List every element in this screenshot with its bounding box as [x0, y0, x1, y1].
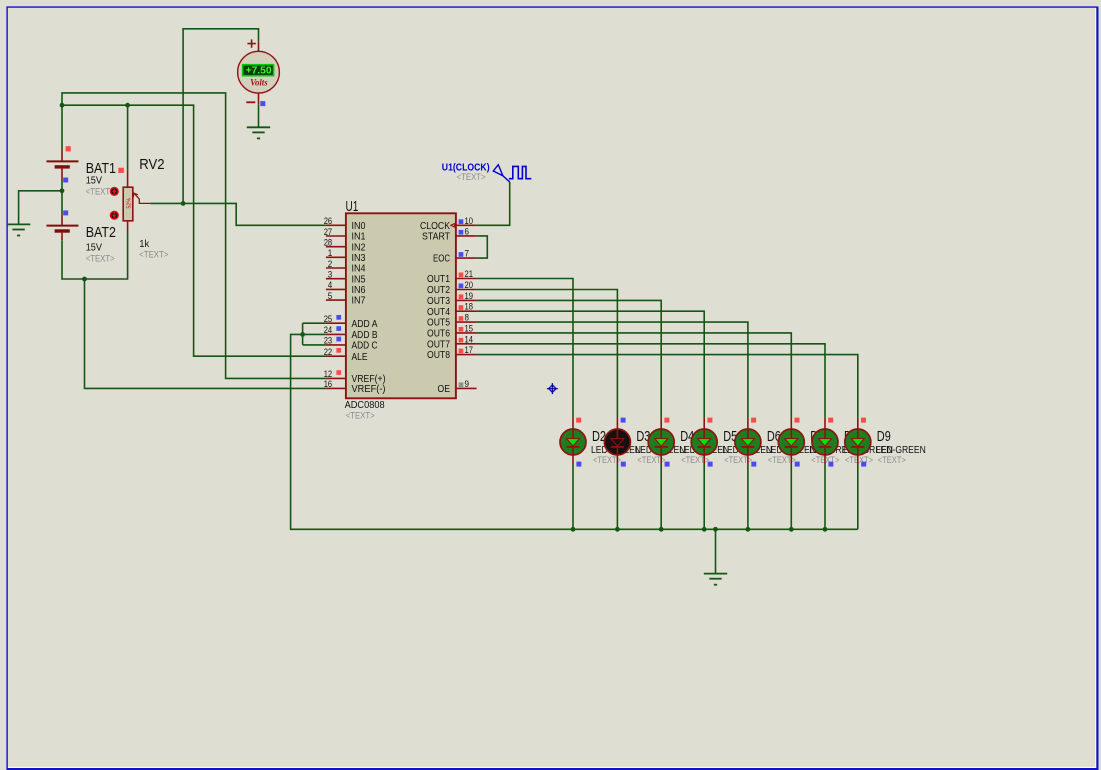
LED D2 — [560, 418, 586, 465]
U1 pin 28 IN2 — [324, 238, 366, 254]
svg-text:IN6: IN6 — [352, 285, 366, 296]
LED D9 selection squares — [861, 418, 866, 423]
RV2 increment button — [110, 187, 119, 196]
svg-text:OUT2: OUT2 — [427, 285, 450, 296]
svg-text:28: 28 — [324, 238, 333, 249]
svg-text:EOC: EOC — [433, 254, 450, 265]
svg-text:6: 6 — [465, 226, 470, 237]
wire LED D6 cathode to ground bus — [747, 465, 749, 530]
svg-text:ADD C: ADD C — [352, 341, 378, 352]
battery BAT2 — [47, 215, 79, 240]
U1 pin 15 OUT6 — [427, 323, 477, 339]
svg-text:20: 20 — [465, 280, 474, 291]
wire U1 OUT1 to LED D2 — [477, 279, 573, 418]
wire U1 OUT8 to LED D9 — [477, 355, 858, 418]
LED D3 selection squares — [621, 418, 626, 423]
svg-text:OUT3: OUT3 — [427, 296, 450, 307]
op-amp/ADC chip U1 ADC0808 body — [346, 213, 456, 398]
RV2 wiper arrow — [135, 194, 151, 204]
svg-text:RV2: RV2 — [139, 157, 164, 173]
U1 pin 17 OUT8 — [427, 345, 477, 361]
BAT1 selection squares — [66, 146, 71, 151]
svg-text:IN5: IN5 — [352, 274, 366, 285]
wire voltmeter- to ground — [258, 104, 260, 127]
voltmeter - pin — [258, 93, 260, 104]
origin marker (blue crosshair) — [547, 383, 558, 394]
LED D9 labels — [876, 429, 926, 466]
svg-text:OUT5: OUT5 — [427, 318, 450, 329]
U1 pin 3 IN5 — [326, 270, 366, 286]
voltmeter body — [238, 51, 280, 93]
junction bus at D4 — [659, 527, 664, 532]
voltmeter + sign — [247, 39, 255, 47]
svg-text:8: 8 — [465, 313, 470, 324]
svg-text:<TEXT>: <TEXT> — [845, 455, 873, 466]
LED D4 labels — [679, 429, 729, 466]
svg-text:<TEXT>: <TEXT> — [346, 410, 375, 421]
svg-text:+7.50: +7.50 — [246, 66, 273, 77]
svg-text:OUT1: OUT1 — [427, 274, 450, 285]
U1 pin 6 START — [422, 226, 477, 242]
U1 pin 4 IN6 — [326, 280, 366, 296]
LED D3 (off) — [604, 418, 630, 465]
wire RV2 top pin rail — [127, 105, 129, 170]
LED D9 — [845, 418, 871, 465]
wire BAT2- bottom rail to RV2 bottom — [62, 232, 128, 280]
svg-text:18: 18 — [465, 302, 474, 313]
svg-text:ADD A: ADD A — [352, 319, 378, 330]
svg-text:OUT7: OUT7 — [427, 339, 450, 350]
wire BAT1+/RV2 top rail to U1 ALE — [62, 105, 326, 356]
BAT2 selection square — [63, 210, 68, 215]
LED D8 selection squares — [828, 418, 833, 423]
U1 pin 16 VREF(-) — [324, 379, 386, 395]
svg-text:IN2: IN2 — [352, 242, 366, 253]
LED D5 selection squares — [707, 418, 712, 423]
svg-text:IN4: IN4 — [352, 264, 366, 275]
svg-text:5: 5 — [328, 291, 333, 302]
wire BAT1- to BAT2+ — [61, 191, 63, 215]
svg-text:1: 1 — [328, 248, 333, 259]
LED D2 labels — [591, 429, 641, 466]
U1 pin 25 ADD A — [324, 314, 378, 330]
wire voltmeter+ to RV2 wiper node (top loop) — [183, 29, 258, 204]
svg-text:<TEXT>: <TEXT> — [878, 455, 906, 466]
LED D3 labels — [635, 429, 685, 466]
svg-text:IN3: IN3 — [352, 253, 366, 264]
svg-text:START: START — [422, 232, 450, 243]
voltmeter - sign — [246, 101, 255, 103]
junction wiper node — [181, 201, 186, 206]
wire U1 OUT3 to LED D4 — [477, 300, 662, 417]
junction bus at D3 — [615, 527, 620, 532]
LED D7 — [778, 418, 804, 465]
wire ADD A tie — [303, 322, 326, 324]
voltmeter display — [243, 65, 274, 76]
svg-text:19: 19 — [465, 291, 474, 302]
LED D5 — [691, 418, 717, 465]
junction bus at D8 — [823, 527, 828, 532]
svg-text:CLOCK: CLOCK — [420, 221, 450, 232]
svg-text:BAT2: BAT2 — [86, 225, 116, 241]
wire U1 OUT4 to LED D5 — [477, 311, 705, 417]
LED D6 — [735, 418, 761, 465]
RV2 top pin — [127, 170, 129, 187]
U1 pin 12 VREF(+) — [324, 369, 386, 385]
voltmeter + pin — [258, 41, 260, 51]
voltmeter selection square — [260, 101, 265, 106]
junction bus at D5 — [702, 527, 707, 532]
wire RV2 wiper to U1 IN0 — [150, 203, 326, 225]
svg-text:<TEXT>: <TEXT> — [86, 253, 115, 264]
potentiometer RV2 body — [123, 187, 133, 221]
svg-text:OUT8: OUT8 — [427, 350, 450, 361]
wire U1 OUT6 to LED D7 — [477, 333, 792, 418]
wire BAT1+ up and over to U1 VREF(+) — [62, 93, 326, 379]
junction bus at D6 — [746, 527, 751, 532]
svg-text:BAT1: BAT1 — [86, 161, 116, 177]
svg-text:OUT6: OUT6 — [427, 329, 450, 340]
svg-text:23: 23 — [324, 336, 333, 347]
wire battery bottom rail to U1 VREF(-) — [85, 279, 326, 388]
U1 pin 27 IN1 — [324, 227, 366, 243]
LED D5 labels — [722, 429, 772, 466]
wire LED D3 cathode to ground bus — [616, 465, 618, 530]
svg-text:LED-GREEN: LED-GREEN — [876, 445, 926, 456]
svg-text:7: 7 — [465, 249, 470, 260]
svg-text:OE: OE — [438, 384, 451, 395]
junction bus at D2 — [571, 527, 576, 532]
wire ADD B to ground bus — [291, 334, 858, 529]
svg-text:2: 2 — [328, 259, 333, 270]
ground (voltmeter) — [247, 126, 270, 128]
LED D4 selection squares — [664, 418, 669, 423]
wire ground bus stem — [715, 529, 717, 573]
svg-text:IN7: IN7 — [352, 296, 366, 307]
svg-text:14: 14 — [465, 334, 474, 345]
junction battery midpoint — [60, 188, 65, 193]
svg-text:9: 9 — [465, 379, 470, 390]
svg-text:4: 4 — [328, 280, 333, 291]
svg-text:26: 26 — [324, 216, 333, 227]
U1 pin 22 ALE — [324, 347, 368, 363]
wire U1 OUT2 to LED D3 — [477, 290, 618, 418]
RV2 decrement button — [110, 211, 119, 220]
sheet inner margin line (cream bottom) — [8, 766, 1096, 768]
U1 pin 10 CLOCK — [420, 216, 477, 232]
svg-text:VREF(-): VREF(-) — [352, 384, 386, 395]
clock generator U1(CLOCK) flag — [493, 165, 503, 176]
svg-text:10: 10 — [465, 216, 474, 227]
svg-text:15V: 15V — [86, 176, 103, 187]
wire ADD A to ADD C vertical tie — [302, 323, 304, 345]
junction BAT1+ rail — [60, 103, 65, 108]
svg-text:D9: D9 — [877, 429, 891, 445]
svg-text:<TEXT>: <TEXT> — [457, 172, 486, 183]
LED D2 selection squares — [576, 418, 581, 423]
RV2 bottom pin — [127, 221, 129, 232]
svg-text:OUT4: OUT4 — [427, 307, 450, 318]
U1 pin 14 OUT7 — [427, 334, 477, 350]
U1 pin 20 OUT2 — [427, 280, 477, 296]
LED D7 selection squares — [795, 418, 800, 423]
svg-text:1k: 1k — [139, 239, 150, 250]
svg-text:25: 25 — [324, 314, 333, 325]
svg-text:Volts: Volts — [250, 78, 268, 88]
ground (LED bus) — [704, 573, 727, 575]
U1 pin 23 ADD C — [324, 336, 378, 352]
svg-text:16: 16 — [324, 379, 333, 390]
wire LED D4 cathode to ground bus — [660, 465, 662, 530]
wire LED D8 cathode to ground bus — [824, 465, 826, 530]
svg-text:15: 15 — [465, 323, 474, 334]
LED D8 labels — [843, 429, 893, 466]
junction bus at D7 — [789, 527, 794, 532]
svg-text:17: 17 — [465, 345, 474, 356]
wire U1 OUT5 to LED D6 — [477, 322, 748, 418]
svg-text:24: 24 — [324, 325, 333, 336]
U1 pin 19 OUT3 — [427, 291, 477, 307]
wire U1 START to EOC loop — [477, 236, 488, 258]
svg-text:ADD B: ADD B — [352, 330, 378, 341]
U1 pin 1 IN3 — [326, 248, 366, 264]
svg-text:52%: 52% — [126, 198, 132, 209]
U1 pin 26 IN0 — [324, 216, 366, 232]
svg-text:15V: 15V — [86, 243, 103, 254]
wire clock generator to U1 CLOCK pin — [477, 182, 510, 225]
wire LED D7 cathode to ground bus — [790, 465, 792, 530]
junction RV2 top tap — [125, 103, 130, 108]
junction ADD tie — [300, 332, 305, 337]
wire battery midpoint to left ground — [19, 180, 62, 224]
LED D7 labels — [809, 429, 859, 466]
svg-text:27: 27 — [324, 227, 333, 238]
U1 pin 18 OUT4 — [427, 302, 477, 318]
LED D8 — [812, 418, 838, 465]
wire ADD C tie — [303, 344, 326, 346]
U1 CLOCK pin edge indicator — [451, 224, 455, 227]
LED D6 selection squares — [751, 418, 756, 423]
svg-text:<TEXT>: <TEXT> — [681, 455, 709, 466]
ground (battery midpoint) — [7, 223, 30, 225]
wire LED D9 cathode to ground bus — [857, 465, 859, 530]
U1 pin 7 EOC — [433, 249, 477, 265]
junction bus at ground stem — [713, 527, 718, 532]
svg-text:IN0: IN0 — [352, 221, 366, 232]
svg-text:U1: U1 — [346, 199, 359, 215]
svg-text:21: 21 — [465, 269, 474, 280]
LED D6 labels — [766, 429, 816, 466]
U1 pin 9 OE — [438, 379, 477, 395]
wire LED D2 cathode to ground bus — [572, 465, 574, 530]
svg-text:IN1: IN1 — [352, 232, 366, 243]
LED D4 — [648, 418, 674, 465]
sheet inner margin line (cream right) — [1095, 8, 1097, 768]
battery BAT1 — [47, 150, 79, 180]
junction battery bottom rail — [82, 277, 87, 282]
svg-text:<TEXT>: <TEXT> — [139, 249, 168, 260]
U1 pin 5 IN7 — [326, 291, 366, 307]
clock generator waveform — [509, 166, 531, 178]
U1 pin 2 IN4 — [326, 259, 366, 275]
U1 pin 21 OUT1 — [427, 269, 477, 285]
wire U1 OUT7 to LED D8 — [477, 344, 825, 418]
svg-text:ALE: ALE — [352, 352, 368, 363]
wire LED D5 cathode to ground bus — [703, 465, 705, 530]
U1 pin 24 ADD B — [324, 325, 378, 341]
svg-text:3: 3 — [328, 270, 333, 281]
U1 pin 8 OUT5 — [427, 313, 477, 329]
svg-text:22: 22 — [324, 347, 333, 358]
